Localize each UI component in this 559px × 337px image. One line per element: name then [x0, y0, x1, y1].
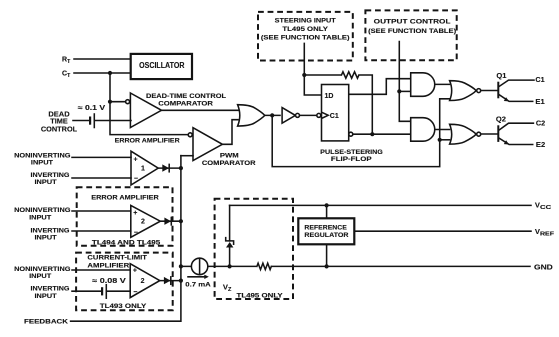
- svg-text:INVERTING: INVERTING: [31, 172, 70, 179]
- svg-text:INPUT: INPUT: [34, 234, 57, 241]
- svg-text:TIME: TIME: [50, 118, 68, 125]
- svg-text:PWM: PWM: [220, 152, 239, 159]
- svg-text:OSCILLATOR: OSCILLATOR: [139, 61, 184, 70]
- svg-text:2: 2: [141, 219, 145, 226]
- svg-text:2: 2: [141, 278, 145, 285]
- svg-text:NONINVERTING: NONINVERTING: [14, 266, 70, 273]
- svg-text:INVERTING: INVERTING: [31, 286, 70, 293]
- svg-text:≈ 0.1 V: ≈ 0.1 V: [78, 105, 106, 112]
- svg-text:COMPARATOR: COMPARATOR: [158, 101, 213, 108]
- svg-text:STEERING INPUT: STEERING INPUT: [275, 17, 337, 24]
- svg-text:−: −: [134, 230, 138, 237]
- svg-text:Q2: Q2: [496, 116, 506, 123]
- svg-text:−: −: [134, 175, 138, 182]
- svg-text:ERROR AMPLIFIER: ERROR AMPLIFIER: [91, 194, 159, 201]
- svg-text:INPUT: INPUT: [29, 273, 52, 280]
- svg-text:COMPARATOR: COMPARATOR: [202, 160, 256, 167]
- svg-text:0.7 mA: 0.7 mA: [185, 281, 210, 288]
- svg-text:NONINVERTING: NONINVERTING: [14, 207, 70, 214]
- svg-text:OUTPUT CONTROL: OUTPUT CONTROL: [374, 18, 451, 25]
- svg-text:C1: C1: [330, 113, 339, 120]
- svg-text:+: +: [134, 157, 138, 164]
- svg-text:CONTROL: CONTROL: [41, 126, 78, 133]
- svg-text:E2: E2: [536, 142, 545, 149]
- svg-text:FLIP-FLOP: FLIP-FLOP: [331, 156, 372, 163]
- svg-text:NONINVERTING: NONINVERTING: [14, 152, 70, 159]
- svg-text:INPUT: INPUT: [29, 214, 52, 221]
- svg-text:INVERTING: INVERTING: [31, 227, 70, 234]
- svg-text:DEAD-TIME CONTROL: DEAD-TIME CONTROL: [146, 93, 226, 100]
- svg-text:AMPLIFIER: AMPLIFIER: [87, 263, 129, 270]
- svg-text:C1: C1: [535, 77, 544, 84]
- svg-text:C2: C2: [536, 121, 545, 128]
- svg-text:1: 1: [141, 166, 145, 173]
- svg-text:Q1: Q1: [496, 73, 506, 80]
- svg-text:REGULATOR: REGULATOR: [304, 232, 348, 239]
- svg-text:TL495 ONLY: TL495 ONLY: [282, 26, 328, 33]
- svg-text:FEEDBACK: FEEDBACK: [24, 319, 68, 326]
- svg-text:TL493 ONLY: TL493 ONLY: [100, 303, 147, 310]
- svg-text:ERROR AMPLIFIER: ERROR AMPLIFIER: [115, 138, 180, 145]
- svg-text:(SEE FUNCTION TABLE): (SEE FUNCTION TABLE): [261, 34, 350, 41]
- svg-text:INPUT: INPUT: [34, 179, 57, 186]
- svg-text:INPUT: INPUT: [31, 159, 54, 166]
- svg-text:+: +: [133, 210, 137, 217]
- svg-text:1D: 1D: [325, 93, 334, 100]
- svg-text:CURRENT-LIMIT: CURRENT-LIMIT: [87, 255, 147, 262]
- svg-text:+: +: [133, 268, 137, 275]
- svg-text:INPUT: INPUT: [34, 293, 57, 300]
- svg-text:DEAD: DEAD: [48, 111, 69, 118]
- svg-text:GND: GND: [534, 262, 554, 271]
- svg-text:E1: E1: [535, 99, 544, 106]
- svg-text:−: −: [133, 289, 137, 296]
- svg-text:TL495 ONLY: TL495 ONLY: [237, 293, 284, 300]
- svg-text:REFERENCE: REFERENCE: [304, 225, 347, 232]
- svg-text:TL494 AND TL495: TL494 AND TL495: [92, 239, 161, 246]
- svg-text:≈ 0.08 V: ≈ 0.08 V: [92, 278, 126, 285]
- svg-text:PULSE-STEERING: PULSE-STEERING: [320, 149, 383, 156]
- svg-text:(SEE FUNCTION TABLE): (SEE FUNCTION TABLE): [368, 28, 456, 35]
